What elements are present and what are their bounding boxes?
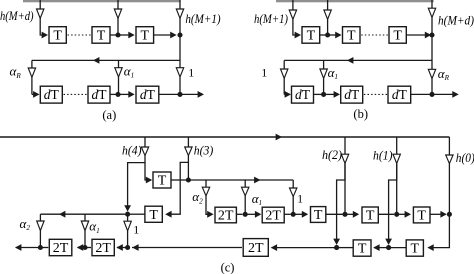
wire dot-d2 to 2T_L2 bbox=[85, 247, 91, 249]
svg-text:h(0): h(0) bbox=[456, 151, 474, 165]
wire T_R4 to node h(1) bbox=[378, 213, 394, 215]
svg-text:dT: dT bbox=[44, 87, 60, 102]
part (c): main input line with arrow bbox=[0, 136, 449, 138]
arrow from dot c-bottom into 2T_L2 bbox=[117, 247, 128, 249]
wire T3b to node h(M+d), arrow bbox=[406, 34, 425, 36]
output arrow of (b) bbox=[432, 93, 453, 95]
arrow from dot d5 into T_B2 bbox=[374, 247, 389, 249]
junction dot c-left bbox=[125, 212, 130, 217]
delay 2T_R2 bbox=[262, 207, 284, 223]
tap h(0) bbox=[448, 137, 450, 155]
feedback wire row 2 of (a), leftward arrow bbox=[32, 59, 180, 61]
node h(M+d): tap line and multiplier triangle bbox=[39, 0, 41, 9]
delay 2T_L1 bbox=[49, 239, 72, 255]
svg-text:T: T bbox=[411, 242, 420, 257]
junction dot d2 bbox=[82, 245, 87, 250]
svg-text:1: 1 bbox=[261, 66, 267, 80]
svg-text:2T: 2T bbox=[265, 209, 281, 224]
h(2) branch jog down to bottom adder bbox=[337, 164, 345, 240]
delay T2b bbox=[343, 27, 361, 44]
junction dot a3 bbox=[115, 92, 120, 97]
junction dot d4 bbox=[334, 245, 339, 250]
delay dT3a bbox=[136, 86, 159, 103]
multiplier alpha_1 branch of (a) bbox=[118, 60, 120, 67]
wire dot-d1 to 2T_L1 bbox=[40, 247, 48, 249]
wire dT3a to node bbox=[159, 93, 178, 95]
svg-text:(c): (c) bbox=[221, 261, 235, 274]
junction dot b1 bbox=[325, 32, 330, 37]
arrow into dT1a bbox=[33, 91, 39, 98]
wire T_B1 to node d5 bbox=[390, 247, 406, 249]
delay T1b bbox=[302, 27, 320, 44]
arrow out of 2T_L1 region: wire from dot d2 into 2T_L1 bbox=[78, 247, 86, 249]
multiplier 1 branch of (a) bbox=[179, 67, 181, 69]
svg-text:h(M+1): h(M+1) bbox=[254, 11, 288, 26]
delay T3a bbox=[136, 27, 154, 44]
multiplier alpha_1 branch (level 2 upper) bbox=[244, 180, 246, 187]
junction dot d1 bbox=[38, 245, 43, 250]
svg-text:1: 1 bbox=[133, 222, 139, 236]
level-2 upper wire with arrow bbox=[188, 179, 293, 181]
multiplier 1 branch of (b) bbox=[283, 60, 285, 69]
junction dot c5 bbox=[394, 212, 399, 217]
tap h(1) bbox=[396, 137, 398, 154]
tap h(M+1) bbox=[179, 0, 181, 9]
svg-text:α2: α2 bbox=[20, 216, 31, 232]
delay dT2b bbox=[341, 86, 363, 103]
svg-text:h(M+d): h(M+d) bbox=[438, 13, 474, 28]
wire T_R3 to node h(2) bbox=[326, 213, 343, 215]
svg-text:h(1): h(1) bbox=[373, 148, 393, 162]
svg-text:α1: α1 bbox=[252, 191, 262, 207]
junction dot a1 bbox=[115, 32, 120, 37]
wire T1b to node bbox=[320, 34, 326, 36]
wire dT3b to node bbox=[411, 93, 430, 95]
output arrow of (a) bbox=[180, 93, 198, 95]
arrow into T_R3 bbox=[293, 213, 302, 215]
arrow down into node c-left bbox=[124, 205, 131, 211]
svg-text:α2: α2 bbox=[192, 189, 203, 205]
h(0) wire down to node bbox=[448, 164, 450, 212]
multiplier alpha_2 branch (left) bbox=[39, 214, 41, 221]
junction dot c2 bbox=[243, 212, 248, 217]
delay dT3b bbox=[388, 86, 411, 103]
h(4) branch jog to level-3 adder bbox=[128, 156, 145, 207]
svg-text:h(M+1): h(M+1) bbox=[185, 11, 220, 26]
delay 2T_L2 bbox=[92, 239, 114, 255]
arrow into T2b bbox=[328, 34, 336, 36]
svg-text:T: T bbox=[149, 208, 158, 223]
svg-text:T: T bbox=[347, 29, 356, 44]
wire T2a to node bbox=[110, 34, 116, 36]
multiplier alpha_1 branch (left) bbox=[84, 214, 86, 221]
tap h(M+d) of (b) bbox=[431, 0, 433, 8]
delay dT2a bbox=[88, 86, 110, 103]
multiplier alpha_2 branch (level 2 upper) bbox=[205, 180, 207, 187]
h(1) main wire down to node bbox=[396, 164, 398, 213]
junction dot c-bottom bbox=[125, 245, 130, 250]
wire dT1b to node bbox=[314, 93, 322, 95]
svg-text:1: 1 bbox=[188, 66, 194, 80]
svg-text:dT: dT bbox=[92, 87, 108, 102]
junction dot a4 bbox=[177, 92, 182, 97]
svg-text:h(M+d): h(M+d) bbox=[0, 8, 34, 23]
delay dT1b bbox=[292, 86, 314, 103]
tap middle of (b) bbox=[327, 0, 329, 10]
junction dot c6 bbox=[447, 212, 452, 217]
part (b): top input bus (gray, clipped) bbox=[276, 0, 434, 2]
svg-text:T: T bbox=[358, 242, 367, 257]
svg-text:2T: 2T bbox=[53, 241, 69, 256]
vertical h(M+d) node down bbox=[431, 35, 433, 69]
delay Tc2 (level 2 left) bbox=[145, 206, 162, 222]
multiplier alpha_R branch of (a) bbox=[31, 60, 33, 68]
arrow into dT2b bbox=[324, 93, 334, 95]
arrow into 2T_R2 bbox=[245, 213, 255, 215]
delay T_B1 bbox=[406, 240, 423, 256]
svg-text:dT: dT bbox=[140, 87, 156, 102]
tap h(3) bbox=[187, 137, 189, 147]
svg-text:α1: α1 bbox=[328, 65, 338, 81]
svg-text:(b): (b) bbox=[353, 107, 368, 121]
svg-text:T: T bbox=[393, 29, 402, 44]
multiplier 1 branch (level 2 upper) bbox=[292, 180, 294, 188]
svg-text:h(4): h(4) bbox=[122, 144, 142, 158]
svg-text:T: T bbox=[97, 29, 106, 44]
bottom-left adder wire: output arrow bbox=[16, 247, 41, 249]
tap h(M+1) of (b) bbox=[292, 0, 294, 10]
delay T2a bbox=[92, 27, 110, 44]
dotted wire T2b-T3b bbox=[361, 34, 388, 36]
multiplier alpha_R branch of (b) bbox=[428, 69, 435, 78]
arrow into T1a bbox=[42, 32, 48, 39]
svg-text:dT: dT bbox=[295, 87, 311, 102]
wire dT2a to node bbox=[110, 93, 116, 95]
delay T_R3 bbox=[311, 207, 326, 223]
delay T_R5 bbox=[413, 207, 430, 223]
svg-text:dT: dT bbox=[392, 87, 408, 102]
h(4) main wire into Tc1 bbox=[145, 163, 147, 180]
tap h(2) bbox=[344, 137, 346, 154]
h(2) main wire down to node bbox=[344, 164, 346, 213]
svg-text:T: T bbox=[417, 209, 426, 224]
svg-text:dT: dT bbox=[344, 87, 360, 102]
wire h(0) node down to bottom row, turn left into T_B1 bbox=[429, 214, 449, 247]
vertical h(M+1) node down bbox=[179, 35, 181, 68]
svg-text:αR: αR bbox=[438, 66, 450, 82]
delay 2T_B3 bbox=[243, 239, 268, 257]
arrow into dT3a bbox=[118, 93, 129, 95]
svg-text:1: 1 bbox=[297, 193, 303, 205]
part (a): top input bus (gray, clipped) bbox=[23, 0, 181, 2]
svg-text:h(2): h(2) bbox=[322, 148, 342, 162]
delay T_R4 bbox=[362, 207, 378, 223]
multiplier 1 branch (left) bbox=[127, 214, 129, 221]
level-2 left wire, leftward arrow bbox=[40, 213, 125, 215]
multiplier alpha_1 branch of (b) bbox=[323, 60, 325, 69]
wire Tc2 output to node c-left bbox=[130, 213, 145, 215]
dotted wire dT2b-dT3b bbox=[364, 93, 387, 95]
wire T_R5 to node h(0) with arrow bbox=[430, 213, 441, 215]
delay T_B2 bbox=[353, 240, 371, 256]
svg-text:h(3): h(3) bbox=[194, 144, 214, 158]
wire 2T_R1 to node bbox=[236, 213, 242, 215]
tap h(4) bbox=[144, 137, 146, 147]
wire T3a to node h(M+1), arrow bbox=[154, 34, 171, 36]
tap h(...) middle of (a) bbox=[117, 0, 119, 9]
feedback wire row 2 of (b), leftward arrow bbox=[284, 59, 432, 61]
svg-text:T: T bbox=[314, 208, 323, 223]
svg-text:(a): (a) bbox=[102, 108, 116, 122]
svg-text:T: T bbox=[366, 209, 375, 224]
delay T1a bbox=[49, 27, 66, 44]
arrow into T_R4 bbox=[345, 213, 354, 215]
h(1) branch jog down to bottom adder bbox=[389, 164, 397, 240]
wire and arrow into T3a bbox=[118, 34, 129, 36]
junction dot b2 bbox=[429, 32, 434, 37]
junction dot c4 bbox=[342, 212, 347, 217]
svg-text:2T: 2T bbox=[95, 241, 111, 256]
h(3) branch jog into Tc2 bbox=[167, 156, 188, 215]
delay 2T_R1 bbox=[215, 207, 236, 223]
arrow into dT1b bbox=[285, 91, 291, 98]
wire T_B2 to node d4 bbox=[339, 247, 353, 249]
junction dot b3 bbox=[321, 92, 326, 97]
junction dot c3 bbox=[291, 212, 296, 217]
arrow into T_R5 bbox=[397, 213, 406, 215]
wire 2T_R2 to node bbox=[284, 213, 291, 215]
delay dT1a bbox=[40, 86, 62, 103]
wire from right into dot c-bottom with arrow bbox=[132, 247, 242, 249]
dotted wire dT1a-dT2a bbox=[64, 93, 88, 95]
svg-text:T: T bbox=[307, 29, 316, 44]
junction dot a2 bbox=[177, 32, 182, 37]
svg-text:α1: α1 bbox=[124, 63, 134, 79]
junction dot c1 bbox=[186, 177, 191, 182]
svg-text:α1: α1 bbox=[89, 218, 99, 234]
wire Tc1 to node h(3) bbox=[171, 179, 186, 181]
dotted wire T1a-T2a bbox=[68, 34, 92, 36]
svg-text:T: T bbox=[158, 174, 167, 189]
svg-text:T: T bbox=[141, 29, 150, 44]
svg-text:2T: 2T bbox=[218, 209, 234, 224]
svg-text:T: T bbox=[53, 29, 62, 44]
svg-text:2T: 2T bbox=[248, 241, 264, 256]
arrow into T1b bbox=[295, 32, 301, 39]
delay Tc1 (level 2 upper) bbox=[153, 172, 171, 188]
svg-text:αR: αR bbox=[10, 64, 22, 80]
wire dot d4 left, arrow into 2T_B3 bbox=[272, 247, 337, 249]
junction dot d5 bbox=[386, 245, 391, 250]
junction dot b4 bbox=[429, 92, 434, 97]
h(3) main wire down to node c1 bbox=[187, 162, 189, 178]
delay T3b bbox=[389, 27, 406, 44]
